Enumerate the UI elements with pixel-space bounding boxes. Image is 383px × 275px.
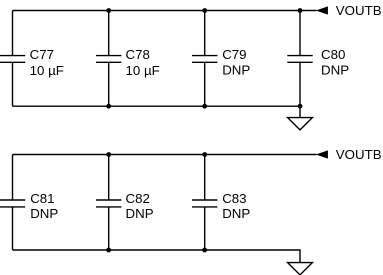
- svg-text:C77: C77: [30, 47, 54, 62]
- svg-text:C80: C80: [321, 47, 345, 62]
- wire: upper bank top rail (net VOUTB): [13, 10, 317, 12]
- capacitor C80: [287, 11, 312, 107]
- svg-text:DNP: DNP: [321, 62, 349, 77]
- junction node: lower top rail / C83: [202, 152, 207, 157]
- capacitor C81: [0, 155, 25, 251]
- junction node: lower top rail / C82: [106, 152, 111, 157]
- svg-text:DNP: DNP: [222, 206, 250, 221]
- wire: lower bank bottom rail (to GND): [13, 250, 301, 263]
- svg-text:C78: C78: [126, 47, 150, 62]
- junction node: upper bottom rail / C78: [106, 104, 111, 109]
- junction node: lower bottom rail / C82: [106, 248, 111, 253]
- net flag VOUTB (lower bank): [316, 150, 328, 158]
- svg-text:C82: C82: [126, 191, 150, 206]
- wire: upper bank bottom rail (to GND): [13, 105, 301, 107]
- svg-text:10 µF: 10 µF: [30, 63, 64, 78]
- svg-text:VOUTB: VOUTB: [336, 3, 382, 18]
- junction node: upper bottom rail / C79: [202, 104, 207, 109]
- svg-text:DNP: DNP: [126, 206, 154, 221]
- capacitor C83: [192, 155, 217, 251]
- svg-text:DNP: DNP: [222, 62, 250, 77]
- svg-text:10 µF: 10 µF: [126, 63, 160, 78]
- net flag VOUTB (upper bank): [316, 6, 328, 14]
- ground (upper bank): [288, 106, 313, 130]
- svg-text:VOUTB: VOUTB: [336, 147, 382, 162]
- junction node: upper bottom rail / C80-GND: [298, 104, 303, 109]
- junction node: upper top rail / C78: [106, 8, 111, 13]
- junction node: upper top rail / C79: [202, 8, 207, 13]
- capacitor C79: [192, 11, 217, 107]
- capacitor C77: [0, 11, 25, 107]
- svg-text:C79: C79: [222, 47, 246, 62]
- junction node: upper top rail / C80: [298, 8, 303, 13]
- svg-text:C81: C81: [30, 191, 54, 206]
- capacitor C82: [96, 155, 121, 251]
- wire: lower bank top rail (net VOUTB): [13, 154, 317, 156]
- capacitor C78: [96, 11, 121, 107]
- junction node: lower bottom rail / C83: [202, 248, 207, 253]
- svg-text:C83: C83: [222, 191, 246, 206]
- svg-text:DNP: DNP: [30, 206, 58, 221]
- ground (lower bank): [288, 263, 313, 275]
